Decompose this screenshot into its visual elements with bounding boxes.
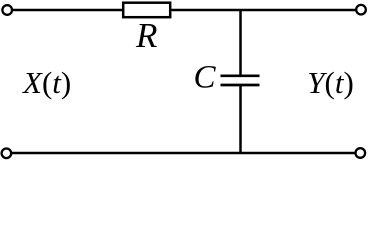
capacitor C top plate xyxy=(221,74,260,77)
wire top-middle: resistor to node xyxy=(172,9,241,12)
svg-text:Y(t): Y(t) xyxy=(307,65,354,100)
svg-text:X(t): X(t) xyxy=(21,65,71,100)
wire bottom rail xyxy=(12,152,355,154)
wire top-right: node to right terminal xyxy=(240,9,356,12)
wire capacitor bottom stub xyxy=(239,85,242,153)
terminal bottom-right xyxy=(356,148,366,158)
terminal top-left xyxy=(2,5,12,15)
wire capacitor top stub xyxy=(239,10,242,76)
terminal top-right xyxy=(356,5,366,15)
capacitor C bottom plate xyxy=(221,84,260,87)
svg-text:R: R xyxy=(135,16,157,55)
terminal bottom-left xyxy=(2,149,12,159)
wire top-left: terminal to resistor xyxy=(13,9,122,12)
svg-text:C: C xyxy=(194,59,217,95)
resistor R xyxy=(123,3,170,18)
